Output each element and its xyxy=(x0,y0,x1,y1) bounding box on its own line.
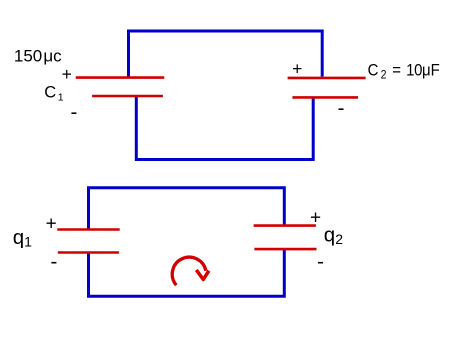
svg-text:150μc: 150μc xyxy=(14,47,62,66)
svg-text:+: + xyxy=(46,214,57,235)
svg-text:+: + xyxy=(310,207,321,228)
svg-text:-: - xyxy=(50,250,57,273)
svg-text:-: - xyxy=(70,101,77,124)
svg-text:C1: C1 xyxy=(44,83,64,103)
svg-text:+: + xyxy=(62,64,72,84)
svg-text:-: - xyxy=(338,97,345,120)
svg-text:q1: q1 xyxy=(13,226,32,249)
svg-text:+: + xyxy=(292,58,302,78)
svg-text:-: - xyxy=(317,250,324,273)
svg-text:q2: q2 xyxy=(324,223,343,246)
svg-text:C2=10μF: C2=10μF xyxy=(368,61,440,81)
